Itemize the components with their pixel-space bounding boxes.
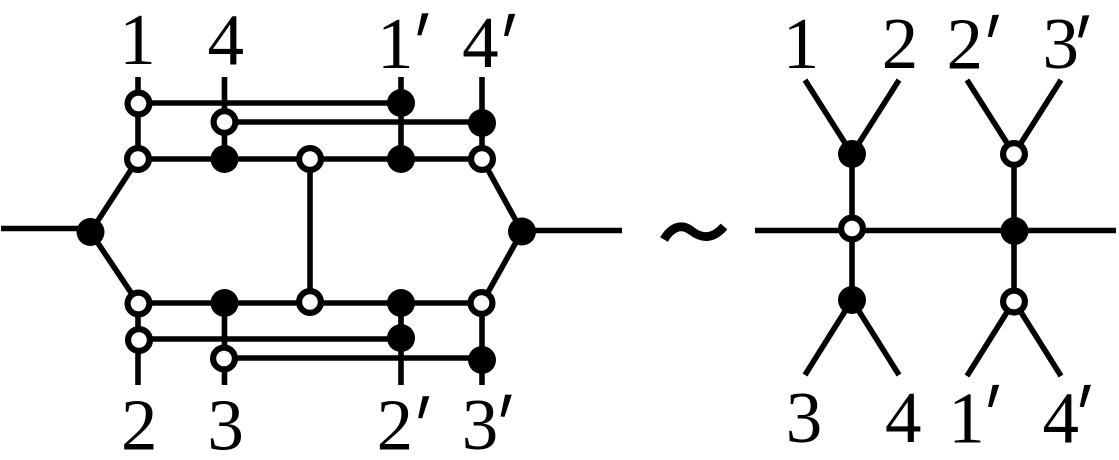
- svg-text:4: 4: [885, 377, 922, 458]
- node row C x5 (open): [471, 148, 493, 170]
- node row B right (filled): [468, 109, 496, 137]
- node right diagram mid-right (filled): [1001, 217, 1029, 245]
- node right diagram mid-left (open): [841, 218, 863, 240]
- svg-text:1: 1: [783, 3, 820, 84]
- svg-text:3: 3: [786, 377, 823, 458]
- node row C x4 (filled): [387, 145, 415, 173]
- wire leg 3 bottom: [222, 303, 228, 385]
- wire leg 1 top: [135, 77, 141, 159]
- svg-text:4: 4: [207, 0, 244, 81]
- wire hexagon upper-right diagonal: [482, 159, 522, 232]
- wire leg 1-prime (right diagram): [967, 301, 1014, 376]
- label 3-prime mark (left diagram bottom): [501, 395, 512, 417]
- node right diagram top-left (filled): [838, 140, 866, 168]
- svg-text:1: 1: [948, 378, 985, 459]
- node row F left (open): [213, 348, 235, 370]
- wire leg 4-prime (right diagram): [1014, 301, 1061, 376]
- node row E right (filled): [387, 324, 415, 352]
- svg-text:2: 2: [121, 384, 158, 460]
- wire row F: [225, 355, 483, 361]
- wire leg 3-prime (right diagram): [1014, 80, 1061, 154]
- svg-text:2: 2: [882, 3, 919, 84]
- svg-text:3: 3: [1042, 3, 1079, 84]
- wire right lead of left diagram: [522, 228, 622, 234]
- node row C x1 (open): [127, 148, 149, 170]
- node row C x2 (filled): [211, 145, 239, 173]
- node row E left (open): [128, 329, 150, 351]
- wire right diagram main horizontal: [755, 228, 1116, 234]
- svg-text:1: 1: [119, 0, 156, 80]
- wire hexagon lower-right diagonal: [482, 232, 522, 304]
- node left vertex (filled): [77, 218, 105, 246]
- svg-text:3: 3: [207, 385, 244, 460]
- wire row E: [138, 336, 401, 342]
- wire leg 1-prime top: [398, 77, 404, 159]
- wire right X vertical: [1011, 154, 1017, 301]
- node right diagram top-right (open): [1003, 143, 1025, 165]
- node row C x3 (open): [299, 148, 321, 170]
- label 2-prime mark (right diagram top): [988, 15, 999, 37]
- wire leg 2 bottom: [135, 303, 141, 385]
- node row B left (open): [214, 111, 236, 133]
- node row D x5 (open): [471, 292, 493, 314]
- svg-text:1: 1: [377, 3, 414, 84]
- label 1-prime mark (right diagram bottom): [988, 385, 999, 407]
- wire leg 2-prime bottom: [398, 303, 404, 385]
- wire leg 2-prime (right diagram): [967, 80, 1014, 154]
- wire left lead: [1, 226, 88, 232]
- node row D x1 (open): [128, 293, 150, 315]
- wire leg 3 (right diagram): [805, 300, 852, 375]
- node right diagram bottom-left (filled): [838, 286, 866, 314]
- wire row B: [225, 119, 483, 125]
- node right vertex (filled): [508, 218, 536, 246]
- wire center vertical: [307, 159, 313, 303]
- wire leg 4 top: [222, 77, 228, 159]
- svg-text:2: 2: [377, 384, 414, 460]
- wire row A: [138, 100, 401, 106]
- label 4-prime mark (right diagram bottom): [1080, 385, 1091, 407]
- svg-text:4: 4: [462, 2, 499, 83]
- node row A left (open): [128, 93, 150, 115]
- label 2-prime mark (left diagram bottom): [418, 396, 429, 418]
- wire leg 3-prime bottom: [479, 303, 485, 385]
- wire hexagon upper-left diagonal: [91, 159, 139, 232]
- node right diagram bottom-right (open): [1003, 291, 1025, 313]
- node row D x2 (filled): [211, 289, 239, 317]
- wire row C: [138, 156, 482, 162]
- wire leg 4 (right diagram): [852, 300, 899, 375]
- svg-text:4: 4: [1043, 378, 1080, 459]
- label 4-prime mark (left diagram top): [504, 14, 515, 36]
- label 3-prime mark (right diagram top): [1078, 15, 1089, 37]
- svg-text:2: 2: [946, 4, 983, 85]
- wire leg 1 (right diagram): [805, 80, 852, 154]
- wire row D: [138, 300, 482, 306]
- node row A right (filled): [387, 89, 415, 117]
- node row D x3 (open): [299, 291, 321, 313]
- node row F right (filled): [468, 346, 496, 374]
- tilde equivalence symbol: [664, 227, 724, 240]
- node row D x4 (filled): [387, 289, 415, 317]
- label 1-prime mark (left diagram top): [417, 13, 428, 35]
- wire leg 2 (right diagram): [852, 80, 899, 154]
- wire left X vertical: [849, 154, 855, 300]
- svg-text:3: 3: [462, 384, 499, 460]
- wire leg 4-prime top: [479, 77, 485, 159]
- wire hexagon lower-left diagonal: [91, 232, 139, 303]
